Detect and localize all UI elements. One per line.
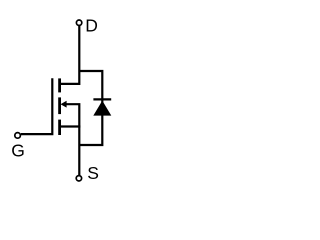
svg-text:S: S <box>87 163 99 183</box>
svg-text:D: D <box>85 16 98 36</box>
svg-text:G: G <box>11 141 25 161</box>
